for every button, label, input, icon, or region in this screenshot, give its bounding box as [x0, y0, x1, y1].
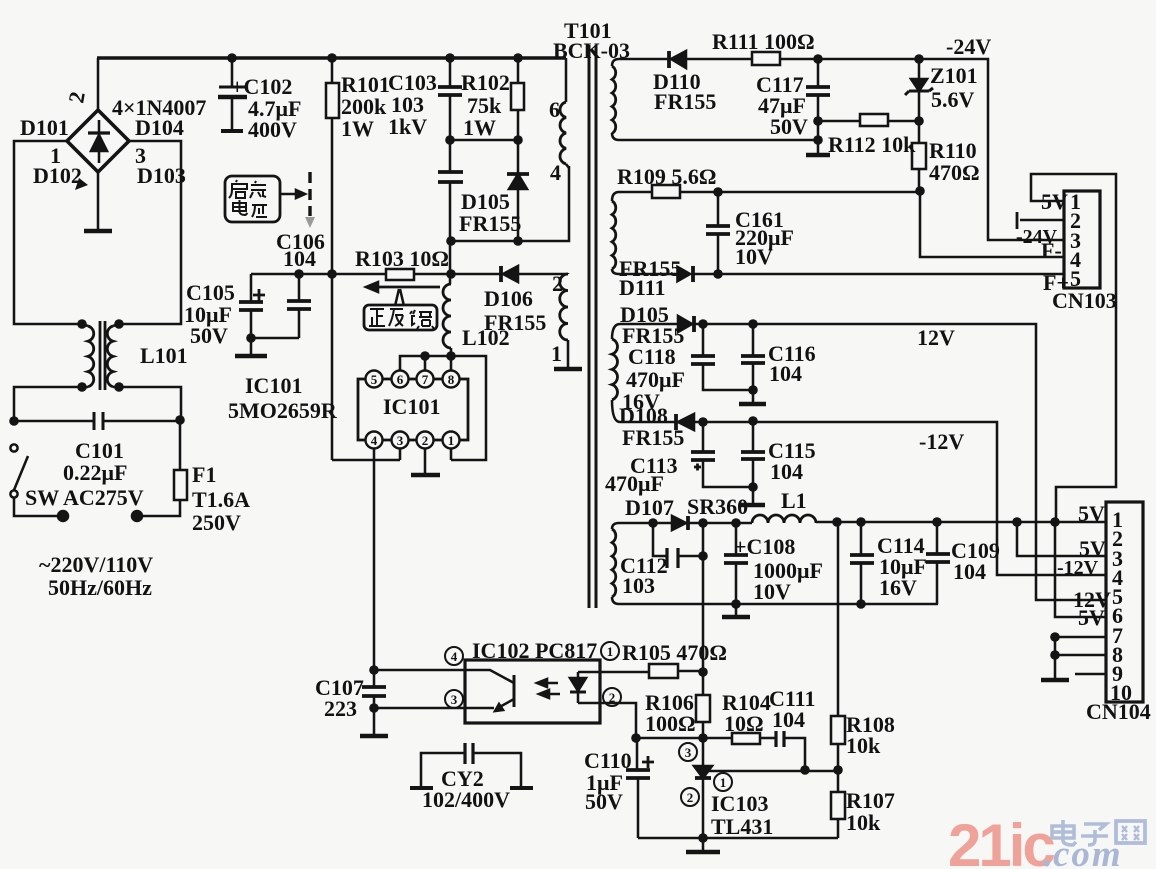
transformer T101 secondary winding B (F): [612, 192, 619, 274]
optocoupler IC102 LED: [570, 672, 586, 703]
optocoupler IC102 light arrows: [537, 679, 560, 698]
svg-text:104: 104: [770, 459, 803, 484]
svg-text:50V: 50V: [190, 323, 228, 348]
IC102 pin number circles: [445, 642, 621, 708]
wire: opto pin1 to R105: [578, 671, 649, 674]
wire: winding A bottom return: [619, 139, 818, 142]
svg-text:102/400V: 102/400V: [422, 787, 510, 812]
svg-text:5V: 5V: [1041, 189, 1068, 214]
ground (C105): [235, 338, 267, 356]
resistor R110: [912, 121, 926, 191]
capacitor C113: [691, 422, 753, 487]
capacitor C112: [653, 523, 703, 568]
svg-text:D107: D107: [625, 495, 674, 520]
svg-text:3: 3: [451, 692, 458, 707]
svg-text:IC103: IC103: [711, 791, 768, 816]
svg-text:IC101: IC101: [383, 394, 440, 419]
svg-text:1: 1: [607, 644, 614, 659]
svg-text:R103 10Ω: R103 10Ω: [355, 246, 449, 271]
svg-text:104: 104: [769, 361, 802, 386]
svg-text:10k: 10k: [846, 733, 881, 758]
svg-text:T1.6A: T1.6A: [192, 487, 250, 512]
capacitor C111: [776, 731, 805, 770]
svg-text:470Ω: 470Ω: [929, 160, 980, 185]
svg-text:SR360: SR360: [687, 494, 748, 519]
svg-text:1: 1: [448, 433, 455, 448]
wire: 5V bottom return rail: [619, 603, 938, 606]
wire: snubber mid node: [450, 139, 518, 142]
capacitor C115: [741, 421, 765, 504]
svg-text:2: 2: [552, 271, 563, 296]
svg-text:FR155: FR155: [622, 323, 684, 348]
callout arrow: startup voltage pointer: [280, 172, 315, 228]
svg-text:8: 8: [448, 372, 455, 387]
fuse F1: [138, 420, 187, 516]
svg-text:2: 2: [609, 690, 616, 705]
resistor R108: [831, 523, 845, 770]
svg-text:12V: 12V: [917, 325, 955, 350]
svg-text:2: 2: [687, 790, 694, 805]
svg-text:1W: 1W: [463, 115, 496, 140]
callout box: qidong dianya (startup voltage): [225, 176, 280, 222]
resistor R103: [332, 269, 414, 280]
svg-text:SW: SW: [25, 485, 59, 510]
svg-text:2: 2: [422, 433, 429, 448]
resistor R101: [326, 58, 339, 460]
svg-text:1: 1: [551, 341, 562, 366]
svg-text:1: 1: [720, 775, 727, 790]
wire: C101 line left: [14, 420, 94, 423]
svg-text:-24V: -24V: [946, 34, 991, 59]
svg-text:7: 7: [422, 372, 429, 387]
wire: R106 bottom node: [636, 737, 732, 740]
diode D107 SR360: [672, 516, 688, 530]
capacitor C117: [806, 59, 830, 140]
wire: feedback node line R103-D106: [414, 273, 568, 276]
svg-text:0.22μF: 0.22μF: [63, 460, 127, 485]
svg-text:103: 103: [622, 573, 655, 598]
bridge rectifier D101-D104: [67, 110, 129, 172]
capacitor C114: [850, 522, 874, 604]
svg-text:R105 470Ω: R105 470Ω: [622, 640, 727, 665]
diode D108: [676, 414, 694, 430]
wire: TL431 anode bottom rail: [638, 837, 838, 840]
inductor L102: [443, 284, 451, 356]
svg-text:104: 104: [772, 707, 805, 732]
svg-text:4: 4: [371, 433, 378, 448]
wire: C105-C106 bottom link: [251, 337, 299, 340]
svg-text:FR155: FR155: [654, 89, 716, 114]
wire: IC101 pin3 bottom link: [332, 448, 400, 460]
ground (winding pin1): [554, 367, 582, 372]
IC103 TL431: [694, 738, 838, 838]
resistor R105: [649, 664, 703, 678]
svg-text:5MO2659R: 5MO2659R: [228, 398, 338, 423]
wire: bridge negative stem to ground: [97, 172, 100, 229]
transformer T101 secondary winding D (5V): [612, 523, 619, 604]
optocoupler IC102 body: [465, 660, 600, 723]
svg-text:10V: 10V: [735, 244, 773, 269]
diode D111: [677, 266, 693, 282]
IC101 pin numbers: [371, 372, 455, 448]
svg-text:5V: 5V: [1078, 605, 1105, 630]
ground (winding A): [806, 140, 830, 155]
svg-text:D103: D103: [137, 163, 186, 188]
wire: bridge top stem: [97, 58, 100, 111]
svg-text:-12V: -12V: [1057, 557, 1099, 579]
svg-text:104: 104: [953, 559, 986, 584]
svg-text:CN104: CN104: [1086, 699, 1151, 724]
svg-text:CN103: CN103: [1052, 288, 1117, 313]
wire: C105/C106 startup node: [251, 273, 332, 276]
IC101 body: [358, 371, 468, 449]
capacitor C116: [741, 324, 765, 390]
svg-text:4: 4: [451, 649, 458, 664]
svg-text:R111 100Ω: R111 100Ω: [712, 29, 815, 54]
connector CN104: [1017, 502, 1143, 702]
wire: L101 bottom-right to fuse node: [119, 387, 181, 420]
svg-text:L1: L1: [781, 488, 807, 513]
capacitor C103: [438, 58, 462, 140]
wire: F- line to CN103 pin4: [920, 191, 1064, 257]
wire: L101 bottom-left to SW node: [14, 387, 82, 421]
svg-text:10V: 10V: [753, 579, 791, 604]
wire: opto pin2 to R106 node: [578, 703, 636, 738]
transformer T101 feedback winding 2-1: [560, 273, 568, 368]
capacitor C108: [724, 523, 748, 604]
callout arrow: positive feedback pointer: [366, 282, 440, 306]
svg-text:FR155: FR155: [459, 211, 521, 236]
wire: R109 line: [619, 191, 920, 194]
diode D106: [451, 266, 518, 282]
wire: IC101 pin4 down to opto node: [373, 448, 376, 670]
svg-text:6: 6: [397, 372, 404, 387]
svg-text:R102: R102: [461, 70, 510, 95]
zener Z101: [905, 59, 933, 121]
transformer T101 primary winding 6-4: [560, 102, 569, 168]
svg-text:5.6V: 5.6V: [931, 87, 975, 112]
ground (CN104 pins 7-8): [1041, 668, 1069, 680]
svg-text:D111: D111: [619, 275, 665, 300]
capacitor C110: [626, 738, 654, 838]
svg-text:100Ω: 100Ω: [645, 711, 696, 736]
svg-text:~220V/110V: ~220V/110V: [39, 552, 153, 577]
svg-text:6: 6: [549, 97, 560, 122]
svg-text:D102: D102: [33, 163, 82, 188]
svg-text:104: 104: [283, 246, 316, 271]
wire: IC101 pins 6,7,8 node to L102: [400, 356, 486, 460]
svg-text:AC275V: AC275V: [63, 485, 144, 510]
capacitor C161: [706, 192, 730, 274]
capacitor C102: [218, 58, 247, 131]
wire: D111 / F+ line to CN103 pin5: [619, 273, 1064, 276]
svg-text:1W: 1W: [341, 116, 374, 141]
connector CN103: [1017, 174, 1116, 522]
wire: bridge AC1 to L101 top-left: [14, 141, 82, 324]
svg-text:L101: L101: [140, 343, 188, 368]
capacitor C104: [438, 140, 463, 284]
svg-text:470μF: 470μF: [605, 471, 664, 496]
svg-text:L102: L102: [462, 325, 510, 350]
ground (C107): [360, 708, 388, 736]
svg-text:-12V: -12V: [919, 429, 964, 454]
svg-text:21ic: 21ic: [948, 812, 1054, 869]
resistor R107: [831, 770, 845, 838]
transformer T101 secondary winding C (12V): [612, 324, 620, 422]
wire: top HV rail: [97, 58, 566, 102]
transformer T101 core: [589, 45, 596, 608]
svg-text:D101: D101: [20, 115, 69, 140]
ground (C116/C118): [739, 390, 766, 404]
wire: 12V rail: [620, 324, 1106, 600]
capacitor C118: [691, 324, 753, 390]
wire: -24V rail: [619, 59, 1064, 240]
svg-text:F-: F-: [1041, 238, 1062, 263]
resistor R111: [752, 52, 780, 65]
svg-text:D106: D106: [484, 286, 533, 311]
resistor R104: [732, 733, 776, 744]
svg-text:50V: 50V: [585, 789, 623, 814]
resistor R112: [818, 114, 919, 126]
svg-text:5: 5: [371, 372, 378, 387]
capacitor C105: [239, 274, 265, 338]
svg-text:3: 3: [397, 433, 404, 448]
node D102 arrow artifact: [75, 178, 88, 190]
wire: -12V rail: [620, 422, 1106, 575]
svg-text:250V: 250V: [192, 510, 241, 535]
svg-text:+C108: +C108: [734, 534, 795, 559]
optocoupler IC102 phototransistor: [465, 670, 514, 711]
svg-text:1kV: 1kV: [388, 114, 427, 139]
capacitor CY2: [410, 743, 533, 788]
inductor L101 common-mode choke: [82, 321, 119, 390]
wire: opto pin3 line: [374, 707, 465, 710]
diode D105 (snubber): [507, 140, 529, 241]
svg-text:R109 5.6Ω: R109 5.6Ω: [617, 164, 717, 189]
svg-text:223: 223: [324, 696, 357, 721]
resistor R106: [696, 695, 710, 738]
svg-text:FR155: FR155: [622, 425, 684, 450]
IC103 pin number circles: [679, 743, 732, 806]
inductor L1: [752, 515, 816, 523]
svg-text:50Hz/60Hz: 50Hz/60Hz: [48, 575, 152, 600]
svg-text:Z101: Z101: [930, 63, 978, 88]
ground (C115/C113): [741, 503, 765, 508]
svg-text:400V: 400V: [248, 117, 297, 142]
svg-text:D104: D104: [135, 115, 184, 140]
svg-text:IC101: IC101: [245, 373, 302, 398]
ground (C108 / 5V return): [722, 604, 750, 617]
diode D105 (12V): [678, 316, 694, 332]
capacitor C109: [926, 522, 950, 604]
capacitor C101: [94, 412, 103, 430]
svg-text:F1: F1: [192, 462, 216, 487]
ground (IC101 pin2): [411, 473, 440, 478]
capacitor C106: [287, 274, 311, 338]
svg-text:16V: 16V: [879, 575, 917, 600]
svg-text:TL431: TL431: [711, 814, 773, 839]
ground (bridge): [84, 229, 112, 234]
wire: snubber bottom node to winding pin4: [450, 166, 569, 241]
wire: C101 line right: [103, 420, 180, 423]
svg-text:IC102 PC817: IC102 PC817: [472, 638, 597, 663]
diode D110: [669, 51, 686, 68]
svg-text:BCK-03: BCK-03: [553, 38, 630, 63]
svg-text:4: 4: [550, 160, 561, 185]
wire: 5V sense line down to regulator: [702, 523, 705, 695]
wire: 5V rectifier line: [619, 522, 752, 525]
transformer T101 secondary winding A (-24V): [612, 59, 619, 140]
watermark dianziwang (electronics net): [1052, 820, 1145, 845]
switch SW: [10, 444, 62, 516]
wire: bridge AC2 to L101 top-right: [119, 141, 181, 324]
wire: IC101 pin2 ground stub: [424, 448, 427, 474]
resistor R102: [511, 58, 524, 140]
ground (TL431): [686, 838, 720, 852]
capacitor C107: [362, 670, 386, 708]
callout box: zhengfankui (positive feedback): [364, 305, 437, 330]
svg-text:10k: 10k: [846, 810, 881, 835]
svg-text:R112 10k: R112 10k: [828, 132, 916, 157]
connector pin labels: [1016, 189, 1151, 724]
wire: opto pin4 line: [374, 669, 465, 672]
svg-text:10Ω: 10Ω: [724, 711, 764, 736]
svg-text:5V: 5V: [1078, 501, 1105, 526]
wire: 5V rail to CN104 pin1: [816, 521, 1106, 524]
node: AC input terminals: [58, 511, 142, 521]
svg-text:50V: 50V: [770, 114, 808, 139]
resistor R109: [652, 185, 680, 198]
svg-text:3: 3: [685, 745, 692, 760]
